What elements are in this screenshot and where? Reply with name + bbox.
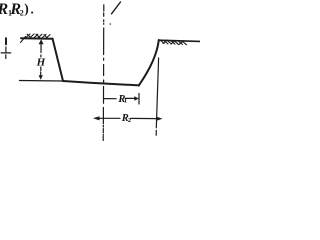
svg-text:H: H <box>36 57 46 69</box>
svg-text:2: 2 <box>128 117 131 124</box>
svg-text:2: 2 <box>20 9 24 18</box>
svg-text:): ) <box>24 1 29 16</box>
svg-text:1: 1 <box>124 97 127 104</box>
svg-text:.: . <box>31 2 34 17</box>
